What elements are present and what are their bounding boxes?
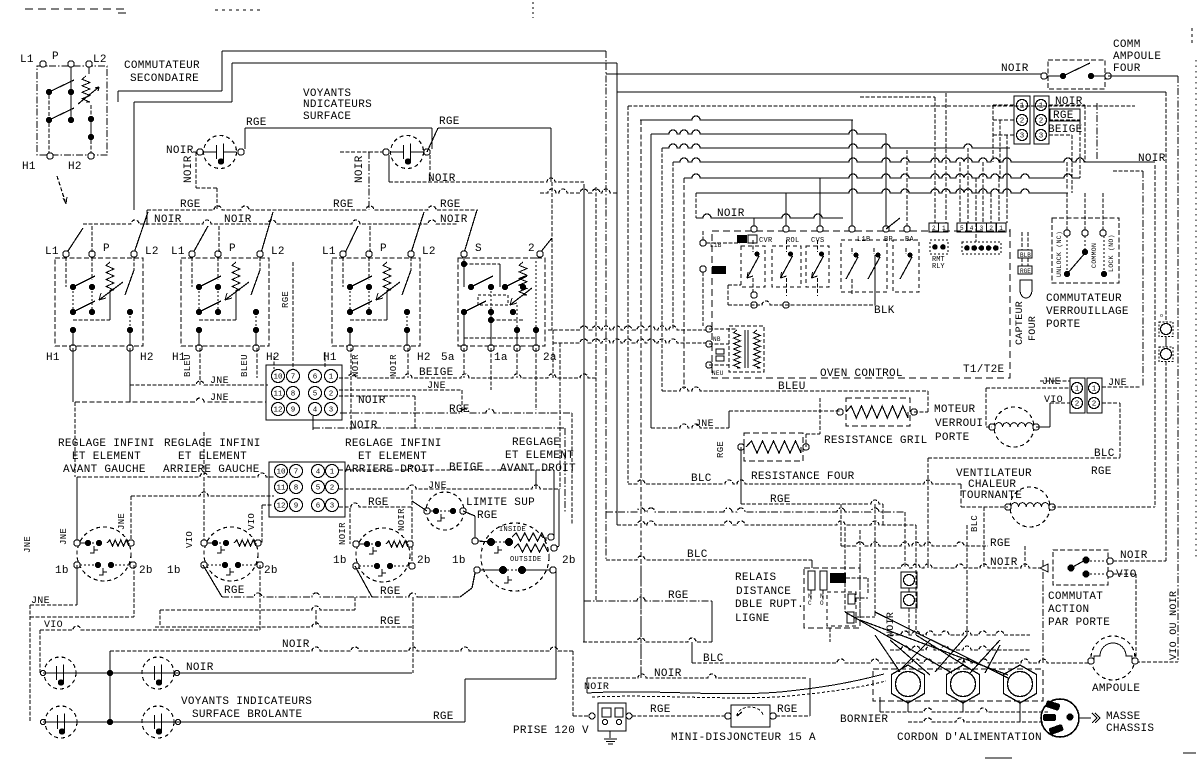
svg-text:P: P [103,243,110,255]
svg-text:RGE: RGE [433,711,454,723]
svg-text:1b: 1b [452,555,466,567]
svg-text:H2: H2 [68,161,82,173]
svg-text:RGE: RGE [668,590,689,602]
svg-text:SECONDAIRE: SECONDAIRE [130,73,199,85]
svg-text:CORDON D'ALIMENTATION: CORDON D'ALIMENTATION [897,732,1042,744]
svg-text:12: 12 [276,503,285,511]
svg-text:H1: H1 [46,352,60,364]
svg-text:COMMUTATEUR: COMMUTATEUR [1046,293,1122,305]
svg-text:9: 9 [294,503,299,511]
svg-text:NOIR: NOIR [186,662,214,674]
svg-text:1b: 1b [55,565,69,577]
svg-text:O: O [820,600,824,607]
svg-text:NOIR: NOIR [358,395,386,407]
svg-text:2: 2 [330,485,335,493]
svg-text:RGE: RGE [380,586,401,598]
svg-text:NOIR: NOIR [350,420,378,432]
svg-text:BLK: BLK [874,305,895,317]
svg-text:ACTION: ACTION [1048,604,1089,616]
svg-text:LIGNE: LIGNE [735,613,770,625]
svg-text:COMMON: COMMON [1091,243,1098,268]
svg-text:2: 2 [528,243,535,255]
svg-text:NOIR: NOIR [1138,153,1166,165]
svg-text:VIO: VIO [44,620,63,631]
svg-text:NOIR: NOIR [224,214,252,226]
svg-text:ET ELEMENT: ET ELEMENT [72,451,141,463]
svg-text:DISTANCE: DISTANCE [736,586,791,598]
svg-text:BEIGE: BEIGE [1048,124,1083,136]
svg-text:COMMUTAT: COMMUTAT [1048,591,1103,603]
svg-text:SURFACE BROLANTE: SURFACE BROLANTE [192,709,303,721]
svg-text:AVANT DROIT: AVANT DROIT [500,463,576,475]
svg-text:RGE: RGE [716,441,726,458]
svg-text:7: 7 [294,469,299,477]
svg-text:RGE: RGE [440,199,461,211]
svg-text:1b: 1b [333,555,347,567]
svg-text:UNLOCK (NC): UNLOCK (NC) [1056,231,1063,277]
svg-text:RLY: RLY [932,263,945,271]
svg-text:RESISTANCE GRIL: RESISTANCE GRIL [824,435,928,447]
svg-text:L1: L1 [322,246,336,258]
svg-text:NOIR: NOIR [154,214,182,226]
svg-text:PORTE: PORTE [1046,319,1081,331]
svg-text:REGLAGE INFINI: REGLAGE INFINI [345,438,442,450]
svg-text:NB: NB [713,336,721,343]
svg-text:T1/T2E: T1/T2E [963,364,1005,376]
svg-text:BORNIER: BORNIER [840,714,888,726]
svg-text:RGE: RGE [333,199,354,211]
svg-text:VERROUI: VERROUI [935,418,983,430]
svg-text:NOIR: NOIR [338,522,348,545]
svg-text:1a: 1a [494,352,508,364]
svg-text:PORTE: PORTE [935,432,970,444]
svg-text:SURFACE: SURFACE [303,111,351,123]
svg-text:BEIGE: BEIGE [419,367,454,379]
svg-text:3: 3 [1039,133,1044,141]
svg-text:PAR PORTE: PAR PORTE [1048,617,1110,629]
svg-text:COMMUTATEUR: COMMUTATEUR [124,60,200,72]
svg-text:AVANT GAUCHE: AVANT GAUCHE [63,464,146,476]
svg-text:NOIR: NOIR [183,155,195,183]
svg-text:VERROUILLAGE: VERROUILLAGE [1046,306,1129,318]
svg-text:8: 8 [294,485,299,493]
svg-text:NDICATEURS: NDICATEURS [303,99,372,111]
svg-text:NOIR: NOIR [354,155,366,183]
svg-text:VOYANTS INDICATEURS: VOYANTS INDICATEURS [181,696,312,708]
svg-text:COMM: COMM [1113,39,1141,51]
svg-text:NOIR: NOIR [166,145,194,157]
svg-text:ET ELEMENT: ET ELEMENT [178,451,247,463]
svg-text:MASSE: MASSE [1106,711,1141,723]
svg-text:4: 4 [316,469,321,477]
svg-text:1b: 1b [167,565,181,577]
svg-text:ET ELEMENT: ET ELEMENT [505,450,574,462]
svg-text:2: 2 [1092,401,1097,409]
svg-text:RGE: RGE [650,704,671,716]
svg-text:RGE: RGE [1020,268,1031,275]
svg-text:2b: 2b [417,555,431,567]
svg-text:NOIR: NOIR [584,682,609,693]
svg-text:2: 2 [1039,118,1044,126]
svg-text:LOCK (NO): LOCK (NO) [1108,234,1115,272]
svg-text:1: 1 [942,225,946,232]
svg-text:FOUR: FOUR [1028,316,1039,341]
svg-text:8: 8 [291,391,296,399]
svg-text:2: 2 [329,391,334,399]
svg-text:NOIR: NOIR [1001,63,1029,75]
svg-text:5: 5 [316,485,321,493]
svg-text:NOIR: NOIR [351,354,361,377]
svg-text:JNE: JNE [117,513,127,530]
svg-text:REGLAGE INFINI: REGLAGE INFINI [58,438,155,450]
svg-text:VIO: VIO [247,513,257,530]
svg-text:ARRIERE GAUCHE: ARRIERE GAUCHE [163,464,260,476]
svg-text:NOIR: NOIR [440,214,468,226]
svg-text:JNE: JNE [428,481,447,492]
svg-text:2: 2 [932,225,936,232]
svg-text:L2: L2 [93,54,107,66]
svg-text:11: 11 [276,485,286,493]
svg-text:o: o [1160,313,1163,319]
svg-text:NOIR: NOIR [990,557,1018,569]
svg-text:BLEU: BLEU [183,354,193,377]
svg-text:1: 1 [1039,103,1044,111]
svg-text:2b: 2b [139,565,153,577]
svg-text:H1: H1 [22,161,36,173]
svg-text:1: 1 [999,225,1003,232]
svg-text:NOIR: NOIR [1120,550,1148,562]
svg-text:7: 7 [291,374,296,382]
svg-text:OUTSIDE: OUTSIDE [510,556,542,564]
svg-text:RGE: RGE [477,510,498,522]
svg-text:LIMITE SUP: LIMITE SUP [466,497,535,509]
svg-text:NOIR: NOIR [397,508,407,531]
svg-text:COM: COM [831,576,842,583]
svg-text:RGE: RGE [439,116,460,128]
svg-text:5: 5 [960,225,964,232]
svg-text:NOIR: NOIR [282,639,310,651]
svg-text:NEU: NEU [712,370,724,377]
svg-text:3: 3 [329,407,334,415]
svg-text:BEIGE: BEIGE [449,462,484,474]
svg-text:P: P [52,51,59,63]
svg-text:RELAIS: RELAIS [735,572,777,584]
svg-text:P: P [380,243,387,255]
svg-text:2: 2 [1075,401,1080,409]
svg-text:ROL: ROL [786,237,800,245]
svg-text:2: 2 [1020,118,1025,126]
svg-text:BLB: BLB [1020,252,1031,259]
svg-text:P: P [229,243,236,255]
svg-text:BLEU: BLEU [240,354,250,377]
svg-text:C: C [808,600,812,607]
svg-text:H2: H2 [417,352,431,364]
svg-text:REGLAGE INFINI: REGLAGE INFINI [164,438,261,450]
svg-text:JNE: JNE [1042,377,1061,388]
svg-text:OVEN CONTROL: OVEN CONTROL [820,368,903,380]
svg-text:NOIR: NOIR [1055,96,1083,108]
svg-text:CVR: CVR [759,237,773,245]
svg-text:RGE: RGE [990,538,1011,550]
svg-text:2b: 2b [264,565,278,577]
svg-text:12: 12 [273,407,282,415]
svg-text:4: 4 [313,407,318,415]
svg-text:MINI-DISJONCTEUR 15 A: MINI-DISJONCTEUR 15 A [671,732,816,744]
svg-text:PRISE 120 V: PRISE 120 V [513,725,589,737]
svg-text:5a: 5a [441,352,455,364]
svg-text:RGE: RGE [180,199,201,211]
svg-text:CHASSIS: CHASSIS [1106,723,1154,735]
svg-text:INSIDE: INSIDE [499,526,526,534]
svg-text:RGE: RGE [246,117,267,129]
svg-text:RGE: RGE [1091,466,1112,478]
svg-text:3: 3 [980,225,984,232]
svg-text:6: 6 [313,374,318,382]
svg-text:JNE: JNE [23,536,33,553]
svg-text:VIO: VIO [185,531,195,548]
svg-text:VIO OU NOIR: VIO OU NOIR [1169,591,1180,660]
svg-text:L2: L2 [145,246,159,258]
svg-text:4: 4 [970,225,974,232]
svg-text:1: 1 [1020,103,1025,111]
svg-text:H2: H2 [266,352,280,364]
svg-text:L2: L2 [422,246,436,258]
svg-text:6: 6 [316,503,321,511]
svg-text:REGLAGE: REGLAGE [512,437,560,449]
svg-text:VIO: VIO [1044,395,1063,406]
svg-text:RGE: RGE [777,704,798,716]
svg-text:AMPOULE: AMPOULE [1113,51,1161,63]
svg-text:CAPTEUR: CAPTEUR [1015,301,1026,345]
svg-text:1: 1 [329,374,334,382]
svg-text:3: 3 [1020,133,1025,141]
svg-text:JNE: JNE [59,528,69,545]
svg-text:9: 9 [291,407,296,415]
svg-text:RGE: RGE [281,291,291,308]
svg-text:H2: H2 [140,352,154,364]
svg-text:NOIR: NOIR [428,173,456,185]
svg-text:VIO: VIO [1116,569,1137,581]
svg-text:BLC: BLC [970,515,980,532]
svg-text:RGE: RGE [449,404,470,416]
svg-text:RESISTANCE FOUR: RESISTANCE FOUR [751,471,855,483]
svg-text:JNE: JNE [31,596,50,607]
svg-text:L1: L1 [20,54,34,66]
svg-text:11: 11 [273,391,283,399]
svg-text:2a: 2a [543,352,557,364]
svg-text:MOTEUR: MOTEUR [934,404,976,416]
svg-text:BLC: BLC [687,549,708,561]
svg-text:DBLE RUPT.: DBLE RUPT. [735,599,804,611]
svg-text:5: 5 [313,391,318,399]
svg-text:3: 3 [330,503,335,511]
svg-text:10: 10 [276,469,286,477]
svg-text:AMPOULE: AMPOULE [1092,683,1140,695]
svg-text:NOIR: NOIR [389,354,399,377]
svg-text:L1: L1 [171,246,185,258]
svg-text:S: S [475,243,482,255]
svg-text:1: 1 [1075,386,1080,394]
svg-text:10: 10 [273,374,283,382]
svg-text:ET ELEMENT: ET ELEMENT [358,451,427,463]
svg-text:2b: 2b [562,555,576,567]
svg-text:RGE: RGE [224,585,245,597]
svg-text:1: 1 [330,469,335,477]
svg-text:2: 2 [989,225,993,232]
svg-text:FOUR: FOUR [1113,63,1141,75]
svg-text:L2: L2 [271,246,285,258]
svg-text:RGE: RGE [380,616,401,628]
svg-text:1: 1 [1092,386,1097,394]
svg-text:L1: L1 [45,246,59,258]
svg-text:BLC: BLC [691,473,712,485]
